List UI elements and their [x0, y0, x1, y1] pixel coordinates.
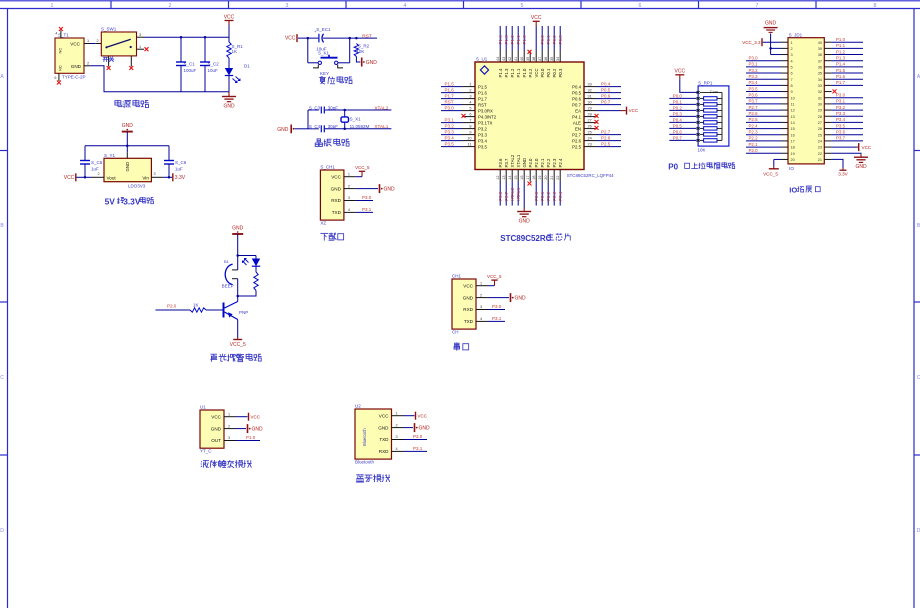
svg-text:12: 12: [791, 109, 795, 113]
svg-text:S_C6: S_C6: [175, 160, 187, 165]
svg-text:S_R2: S_R2: [358, 44, 370, 49]
svg-text:34: 34: [556, 57, 560, 61]
svg-text:21: 21: [818, 158, 822, 162]
svg-text:P0.1: P0.1: [546, 35, 551, 45]
svg-text:1: 1: [139, 45, 141, 49]
svg-text:41: 41: [514, 57, 518, 61]
svg-text:RST: RST: [362, 33, 372, 38]
svg-text:34: 34: [818, 78, 822, 82]
svg-text:2: 2: [480, 293, 482, 297]
svg-text:GND: GND: [515, 295, 527, 301]
svg-text:VCC_5: VCC_5: [487, 274, 502, 279]
svg-text:P3.4: P3.4: [445, 135, 455, 140]
svg-text:P3.1TX: P3.1TX: [478, 120, 492, 125]
svg-text:1: 1: [480, 281, 482, 285]
svg-text:XZ: XZ: [320, 221, 326, 226]
svg-text:17: 17: [791, 140, 795, 144]
svg-text:P4.2: P4.2: [528, 68, 533, 77]
svg-text:2: 2: [97, 39, 99, 43]
svg-text:P3.1: P3.1: [413, 446, 423, 451]
svg-text:18: 18: [532, 176, 536, 180]
svg-text:P3.7: P3.7: [749, 99, 759, 104]
svg-text:P3.5: P3.5: [445, 141, 455, 146]
svg-text:P1.2: P1.2: [510, 68, 515, 77]
svg-text:GND: GND: [211, 426, 222, 431]
svg-text:EA: EA: [575, 108, 581, 113]
svg-text:VCC_3.3: VCC_3.3: [742, 40, 761, 45]
svg-text:GND: GND: [522, 158, 527, 168]
svg-text:P3.3: P3.3: [836, 111, 846, 116]
svg-text:1: 1: [51, 3, 54, 9]
svg-text:P1.2: P1.2: [510, 35, 515, 45]
svg-text:39: 39: [818, 47, 822, 51]
svg-text:11: 11: [791, 103, 795, 107]
svg-text:P0.5: P0.5: [601, 87, 611, 92]
svg-text:10: 10: [791, 96, 795, 100]
svg-text:6: 6: [54, 76, 56, 80]
svg-text:P0.7: P0.7: [673, 135, 683, 140]
svg-text:P2.1: P2.1: [540, 158, 545, 167]
svg-text:S_C4: S_C4: [309, 124, 321, 129]
svg-text:P0.2: P0.2: [552, 35, 557, 45]
svg-text:VCC: VCC: [675, 69, 686, 75]
svg-text:3: 3: [154, 172, 156, 176]
svg-text:STC89C52RC: STC89C52RC: [500, 234, 551, 243]
svg-text:21: 21: [550, 176, 554, 180]
svg-text:24: 24: [588, 137, 592, 141]
svg-text:P1.4: P1.4: [498, 68, 503, 77]
svg-text:3: 3: [286, 3, 289, 9]
svg-text:P0.6: P0.6: [673, 129, 683, 134]
svg-text:S_JD1: S_JD1: [789, 32, 803, 37]
svg-text:P1.3: P1.3: [836, 56, 846, 61]
svg-text:4: 4: [480, 317, 482, 321]
svg-text:P0.3: P0.3: [673, 111, 683, 116]
svg-text:P2.4: P2.4: [558, 158, 563, 167]
svg-text:S_C2: S_C2: [208, 61, 220, 66]
svg-text:P3.0: P3.0: [836, 93, 846, 98]
svg-text:VCC_5: VCC_5: [230, 342, 246, 348]
svg-text:EN: EN: [575, 126, 581, 131]
svg-text:B: B: [0, 223, 4, 229]
svg-text:P2.0: P2.0: [167, 304, 177, 309]
svg-text:P2.4: P2.4: [749, 123, 759, 128]
svg-text:P2.3: P2.3: [552, 191, 557, 201]
svg-text:VCC: VCC: [534, 68, 539, 77]
svg-text:P2.1: P2.1: [540, 191, 545, 201]
svg-text:P2.2: P2.2: [749, 136, 759, 141]
svg-text:CH1: CH1: [452, 274, 461, 279]
svg-text:P3.5: P3.5: [478, 144, 487, 149]
svg-text:3.3V: 3.3V: [123, 196, 141, 206]
svg-text:35: 35: [818, 72, 822, 76]
svg-text:P2.7: P2.7: [749, 105, 759, 110]
svg-text:P2.0: P2.0: [534, 191, 539, 201]
svg-text:GND: GND: [855, 164, 867, 170]
svg-text:23: 23: [588, 143, 592, 147]
svg-text:VCC: VCC: [463, 283, 473, 288]
svg-text:Vout: Vout: [107, 175, 117, 180]
svg-text:44: 44: [496, 57, 500, 61]
svg-text:P3.4: P3.4: [478, 138, 487, 143]
svg-text:NC: NC: [58, 65, 63, 71]
svg-text:RXD: RXD: [463, 307, 473, 312]
svg-text:3: 3: [139, 33, 141, 37]
svg-text:2: 2: [228, 424, 230, 428]
svg-text:P3.7: P3.7: [504, 191, 509, 201]
svg-text:5: 5: [791, 65, 793, 69]
svg-text:1K: 1K: [193, 303, 199, 308]
svg-text:P1.6: P1.6: [478, 90, 487, 95]
svg-text:P0.7: P0.7: [601, 99, 611, 104]
svg-text:P1.6: P1.6: [836, 74, 846, 79]
svg-text:VCC: VCC: [224, 14, 235, 20]
svg-text:TXD: TXD: [332, 210, 342, 215]
svg-text:P0.2: P0.2: [673, 105, 683, 110]
svg-text:100uF: 100uF: [184, 68, 197, 73]
svg-text:P0.5: P0.5: [572, 90, 581, 95]
svg-text:P3.1: P3.1: [836, 99, 846, 104]
svg-text:LDO3V3: LDO3V3: [128, 183, 146, 188]
svg-text:10K: 10K: [356, 49, 364, 54]
svg-text:P3.5: P3.5: [836, 123, 846, 128]
svg-text:P2.6: P2.6: [572, 138, 581, 143]
svg-text:23: 23: [818, 146, 822, 150]
svg-text:Com: Com: [710, 89, 718, 94]
svg-text:1: 1: [87, 39, 89, 43]
svg-text:S_Y1: S_Y1: [104, 153, 116, 158]
svg-text:KEY: KEY: [320, 71, 329, 76]
svg-text:2: 2: [791, 47, 793, 51]
svg-text:GND: GND: [384, 186, 396, 192]
svg-text:18: 18: [791, 146, 795, 150]
svg-text:P3.4: P3.4: [749, 80, 759, 85]
svg-text:GND: GND: [378, 425, 389, 430]
svg-text:P3.3: P3.3: [445, 129, 455, 134]
svg-text:P2.0: P2.0: [749, 148, 759, 153]
svg-text:C: C: [0, 375, 4, 381]
svg-text:P3.0: P3.0: [492, 304, 502, 309]
svg-text:RXD: RXD: [379, 449, 389, 454]
svg-text:P0.6: P0.6: [601, 93, 611, 98]
svg-text:22: 22: [818, 152, 822, 156]
svg-text:S_CH1: S_CH1: [320, 165, 335, 170]
svg-text:2: 2: [348, 184, 350, 188]
svg-text:VCC_5: VCC_5: [763, 172, 778, 177]
svg-text:7: 7: [791, 78, 793, 82]
svg-text:P0.0: P0.0: [540, 68, 545, 77]
svg-text:8: 8: [791, 84, 793, 88]
svg-text:P2.0: P2.0: [534, 158, 539, 167]
svg-text:GND: GND: [252, 426, 264, 432]
svg-text:P1.1: P1.1: [516, 35, 521, 45]
svg-text:26: 26: [588, 125, 592, 129]
svg-text:20: 20: [544, 176, 548, 180]
svg-text:GND: GND: [223, 104, 235, 110]
svg-text:S_T1: S_T1: [58, 33, 69, 38]
svg-text:17: 17: [526, 176, 530, 180]
svg-text:P3.3: P3.3: [749, 74, 759, 79]
svg-text:2: 2: [396, 423, 398, 427]
svg-text:P1.0: P1.0: [246, 435, 256, 440]
svg-text:P3.7: P3.7: [504, 158, 509, 167]
svg-text:3.3V: 3.3V: [175, 175, 186, 181]
svg-text:30pF: 30pF: [328, 124, 339, 129]
svg-text:P2.7: P2.7: [572, 132, 581, 137]
svg-text:P2.2: P2.2: [546, 158, 551, 167]
svg-text:PNP: PNP: [239, 310, 248, 315]
svg-text:IO: IO: [789, 186, 797, 195]
svg-text:40: 40: [818, 41, 822, 45]
svg-text:TXD: TXD: [379, 437, 389, 442]
svg-text:P3.3: P3.3: [478, 132, 487, 137]
svg-text:P0.6: P0.6: [572, 96, 581, 101]
svg-text:20: 20: [791, 158, 795, 162]
svg-text:3: 3: [480, 305, 482, 309]
svg-text:S_RP1: S_RP1: [698, 80, 713, 85]
svg-text:TYPE-C-2P: TYPE-C-2P: [62, 75, 86, 80]
svg-text:GND: GND: [463, 295, 474, 300]
svg-text:P3.0: P3.0: [362, 195, 372, 200]
svg-text:1uF: 1uF: [175, 167, 183, 172]
svg-text:30pF: 30pF: [328, 105, 339, 110]
svg-text:12: 12: [496, 176, 500, 180]
svg-text:36: 36: [544, 57, 548, 61]
svg-text:RST: RST: [445, 99, 454, 104]
svg-text:7: 7: [756, 3, 759, 9]
svg-text:4: 4: [404, 3, 407, 9]
svg-text:P3.1: P3.1: [492, 316, 502, 321]
svg-text:5V: 5V: [105, 196, 116, 206]
svg-text:S_EC1: S_EC1: [316, 27, 331, 32]
svg-text:38: 38: [532, 57, 536, 61]
svg-text:P2.6: P2.6: [749, 111, 759, 116]
svg-text:27: 27: [818, 121, 822, 125]
svg-text:S_K1: S_K1: [318, 51, 330, 56]
svg-text:4: 4: [55, 32, 57, 36]
svg-text:40: 40: [520, 57, 524, 61]
svg-text:GND: GND: [232, 226, 244, 232]
svg-text:S_X1: S_X1: [350, 116, 362, 121]
svg-text:25: 25: [588, 131, 592, 135]
svg-text:P3.6: P3.6: [749, 93, 759, 98]
svg-text:19: 19: [538, 176, 542, 180]
svg-text:P0.3: P0.3: [558, 68, 563, 77]
svg-text:P2.1: P2.1: [749, 142, 759, 147]
svg-text:P2.5: P2.5: [749, 117, 759, 122]
svg-text:XTAL1: XTAL1: [516, 187, 521, 201]
svg-text:P2.2: P2.2: [546, 191, 551, 201]
svg-text:XTAL2: XTAL2: [374, 105, 388, 110]
svg-text:BEEP: BEEP: [222, 283, 234, 288]
svg-text:Vin: Vin: [142, 175, 149, 180]
svg-text:4: 4: [396, 447, 398, 451]
svg-text:P3.6: P3.6: [498, 158, 503, 167]
svg-text:32: 32: [818, 90, 822, 94]
svg-text:3.3V: 3.3V: [838, 172, 848, 177]
svg-text:11: 11: [468, 143, 472, 147]
svg-text:VCC: VCC: [531, 15, 542, 21]
svg-text:P3.2: P3.2: [478, 126, 487, 131]
svg-text:P0.7: P0.7: [572, 102, 581, 107]
svg-text:3: 3: [348, 196, 350, 200]
svg-text:P1.7: P1.7: [836, 80, 846, 85]
svg-text:P4.3INT2: P4.3INT2: [478, 114, 497, 119]
svg-text:P0.4: P0.4: [572, 84, 581, 89]
svg-text:D1: D1: [244, 64, 250, 69]
svg-text:P0.3: P0.3: [558, 35, 563, 45]
svg-text:GND: GND: [366, 60, 378, 66]
svg-text:OUT: OUT: [211, 438, 221, 443]
svg-text:P1.7: P1.7: [478, 96, 487, 101]
svg-text:Bluetooth: Bluetooth: [355, 460, 375, 465]
svg-text:P1.2: P1.2: [836, 49, 846, 54]
svg-text:9: 9: [791, 90, 793, 94]
svg-text:4: 4: [791, 59, 793, 63]
svg-text:GND: GND: [765, 21, 777, 27]
svg-text:8: 8: [469, 125, 471, 129]
svg-text:15: 15: [514, 176, 518, 180]
svg-text:1: 1: [791, 41, 793, 45]
svg-text:8: 8: [874, 3, 877, 9]
svg-text:P4.0: P4.0: [528, 158, 533, 167]
svg-text:37: 37: [538, 57, 542, 61]
svg-text:GND: GND: [125, 162, 130, 172]
svg-text:33: 33: [818, 84, 822, 88]
svg-text:U2: U2: [355, 404, 361, 409]
svg-text:U1: U1: [200, 405, 206, 410]
svg-text:P1.1: P1.1: [836, 43, 846, 48]
svg-text:VCC: VCC: [285, 36, 296, 42]
svg-text:P0.1: P0.1: [546, 68, 551, 77]
svg-text:IO: IO: [789, 166, 794, 171]
svg-text:14: 14: [791, 121, 795, 125]
svg-text:15: 15: [791, 127, 795, 131]
svg-text:VCC: VCC: [331, 174, 341, 179]
svg-text:P4.1: P4.1: [572, 114, 581, 119]
svg-text:5: 5: [521, 3, 524, 9]
svg-text:GND: GND: [71, 64, 82, 69]
svg-text:ALE: ALE: [573, 120, 581, 125]
svg-text:VCC: VCC: [211, 414, 221, 419]
svg-text:YT_C: YT_C: [200, 449, 212, 454]
svg-text:P0: P0: [668, 162, 678, 171]
svg-text:S_SW1: S_SW1: [101, 27, 117, 32]
svg-text:XTAL2: XTAL2: [510, 154, 515, 167]
svg-text:P3.0RX: P3.0RX: [478, 108, 493, 113]
svg-text:P1.4: P1.4: [498, 35, 503, 45]
svg-text:P3.7: P3.7: [836, 136, 846, 141]
svg-text:1: 1: [348, 172, 350, 176]
svg-text:P0.1: P0.1: [673, 99, 683, 104]
svg-text:P1.5: P1.5: [445, 81, 455, 86]
svg-text:P3.0: P3.0: [413, 434, 423, 439]
svg-text:P1.5: P1.5: [478, 84, 487, 89]
svg-text:P0.4: P0.4: [601, 81, 611, 86]
svg-text:S_C5: S_C5: [91, 160, 103, 165]
svg-text:P0.4: P0.4: [673, 117, 683, 122]
svg-text:P1.7: P1.7: [445, 93, 455, 98]
svg-text:A: A: [0, 74, 4, 80]
svg-text:6: 6: [791, 72, 793, 76]
svg-text:30: 30: [818, 103, 822, 107]
svg-text:P1.0: P1.0: [522, 35, 527, 45]
svg-text:S_C1: S_C1: [184, 61, 196, 66]
svg-text:VCC: VCC: [629, 108, 639, 113]
svg-text:10K: 10K: [698, 148, 706, 153]
svg-text:VCC: VCC: [418, 413, 428, 418]
svg-text:39: 39: [526, 57, 530, 61]
svg-text:VCC: VCC: [379, 413, 389, 418]
svg-text:P2.5: P2.5: [601, 141, 611, 146]
svg-text:43: 43: [502, 57, 506, 61]
svg-text:P1.0: P1.0: [836, 37, 846, 42]
svg-text:16: 16: [791, 133, 795, 137]
svg-text:1K: 1K: [232, 49, 238, 54]
svg-text:GND: GND: [419, 425, 431, 431]
svg-text:P2.3: P2.3: [552, 158, 557, 167]
svg-text:P2.3: P2.3: [749, 130, 759, 135]
svg-text:P2.6: P2.6: [601, 135, 611, 140]
svg-text:36: 36: [818, 65, 822, 69]
svg-text:29: 29: [818, 109, 822, 113]
svg-text:35: 35: [550, 57, 554, 61]
svg-text:VCC: VCC: [70, 41, 80, 46]
svg-text:XTAL2: XTAL2: [510, 187, 515, 201]
svg-text:42: 42: [508, 57, 512, 61]
svg-text:P3.1: P3.1: [749, 62, 759, 67]
svg-text:GND: GND: [331, 186, 342, 191]
svg-text:STC89C52RC_LQFP44: STC89C52RC_LQFP44: [567, 173, 614, 178]
svg-text:P3.6: P3.6: [836, 130, 846, 135]
svg-text:P0.5: P0.5: [673, 123, 683, 128]
svg-text:31: 31: [818, 96, 822, 100]
svg-text:19: 19: [791, 152, 795, 156]
svg-text:S_U1: S_U1: [476, 57, 488, 62]
svg-text:P3.2: P3.2: [836, 105, 846, 110]
svg-text:38: 38: [818, 53, 822, 57]
svg-text:6: 6: [639, 3, 642, 9]
svg-text:P1.5: P1.5: [836, 68, 846, 73]
svg-text:11.0592M: 11.0592M: [350, 124, 370, 129]
svg-text:XTAL1: XTAL1: [374, 124, 388, 129]
svg-text:25: 25: [818, 133, 822, 137]
svg-text:P3.2: P3.2: [445, 123, 455, 128]
svg-text:GND: GND: [277, 127, 289, 133]
svg-text:RST: RST: [478, 102, 487, 107]
svg-text:P1.1: P1.1: [516, 68, 521, 77]
svg-text:P3.0: P3.0: [749, 56, 759, 61]
svg-text:1: 1: [396, 411, 398, 415]
svg-text:10: 10: [467, 137, 471, 141]
svg-text:P0.0: P0.0: [673, 93, 683, 98]
svg-text:XTAL1: XTAL1: [516, 154, 521, 167]
svg-text:9: 9: [469, 131, 471, 135]
svg-text:26: 26: [818, 127, 822, 131]
svg-text:VCC: VCC: [251, 414, 261, 419]
svg-text:S_C3: S_C3: [309, 105, 321, 110]
svg-text:P3.1: P3.1: [445, 117, 455, 122]
svg-text:22: 22: [556, 176, 560, 180]
svg-text:P3.6: P3.6: [498, 191, 503, 201]
svg-text:2: 2: [98, 172, 100, 176]
svg-text:14: 14: [508, 176, 512, 180]
svg-text:3: 3: [228, 436, 230, 440]
svg-text:3: 3: [396, 435, 398, 439]
svg-text:24: 24: [818, 140, 822, 144]
svg-text:P3.5: P3.5: [749, 86, 759, 91]
svg-text:VCC: VCC: [64, 175, 75, 181]
